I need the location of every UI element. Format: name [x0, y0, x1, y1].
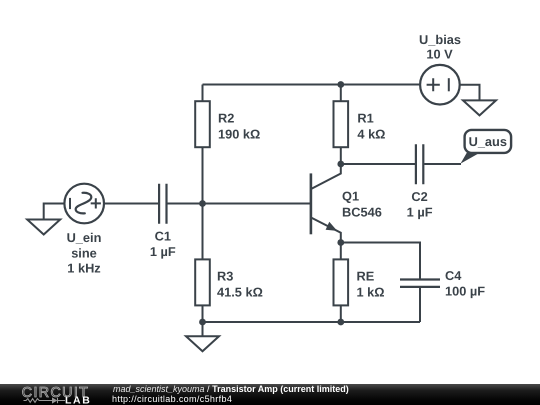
U_bias plus sign: [427, 78, 440, 91]
resistor R3: [195, 259, 210, 305]
wire RE bottom stem: [340, 305, 342, 322]
node junction R3 bottom: [199, 319, 206, 326]
ground at U_bias: [463, 100, 496, 115]
label RE value: [357, 268, 385, 299]
node junction collector: [337, 161, 344, 168]
label R3 value: [217, 268, 263, 299]
transistor Q1 collector lead: [311, 164, 341, 189]
wire RE top stem: [340, 243, 342, 260]
svg-text:R3: R3: [217, 268, 233, 283]
resistor RE: [334, 259, 349, 305]
svg-text:U_bias: U_bias: [419, 32, 461, 47]
capacitor C2: [416, 144, 423, 184]
svg-text:1 µF: 1 µF: [407, 205, 433, 220]
U_bias minus bar: [448, 78, 450, 91]
wire top rail from R2 to U_bias: [203, 84, 421, 86]
ground bottom: [186, 336, 219, 351]
U_ein minus bar: [69, 198, 71, 209]
wire R2 top stem: [202, 85, 204, 102]
label Q1 BC546: [342, 189, 382, 220]
wire C1 to base node: [167, 203, 310, 205]
svg-text:RE: RE: [357, 268, 375, 283]
wire R3 bottom stem: [202, 305, 204, 322]
label R1 value: [357, 110, 385, 141]
footer url line: [112, 394, 232, 404]
wire C4 bottom to bottom rail: [419, 287, 421, 322]
transistor Q1 base bar: [310, 173, 313, 234]
svg-text:Q1: Q1: [342, 189, 359, 204]
wire R3 node to ground: [202, 322, 204, 336]
wire R1 top stem: [340, 85, 342, 102]
wire bottom rail: [203, 321, 421, 323]
label C4 value: [445, 268, 485, 299]
wire U_ein left to ground: [44, 204, 65, 220]
svg-text:1 kHz: 1 kHz: [67, 261, 100, 276]
transistor Q1 emitter lead: [311, 218, 341, 243]
capacitor C1: [159, 184, 166, 224]
footer credit line: [113, 384, 349, 394]
node junction R1-toprail: [337, 81, 344, 88]
svg-text:U_ein: U_ein: [67, 230, 102, 245]
wire emitter node to C4 top: [341, 243, 420, 280]
transistor Q1 emitter arrow: [326, 222, 338, 231]
wire R2 bottom stem: [202, 147, 204, 203]
label U_bias: [419, 32, 461, 62]
svg-text:LAB: LAB: [65, 395, 91, 405]
svg-text:4 kΩ: 4 kΩ: [357, 126, 385, 141]
node junction emitter: [337, 239, 344, 246]
wire R3 top stem: [202, 204, 204, 260]
label C1 value: [150, 229, 176, 260]
ground at U_ein: [27, 220, 60, 235]
svg-text:R1: R1: [357, 110, 373, 125]
resistor R2: [195, 101, 210, 147]
svg-text:C4: C4: [445, 268, 462, 283]
svg-text:U_aus: U_aus: [469, 134, 507, 149]
wire U_ein to C1: [104, 203, 158, 205]
node junction RE bottom: [337, 319, 344, 326]
label C2 value: [407, 189, 433, 220]
svg-text:C1: C1: [155, 229, 171, 244]
svg-text:190 kΩ: 190 kΩ: [218, 126, 260, 141]
CircuitLab logo: [15, 384, 115, 405]
svg-text:R2: R2: [218, 110, 234, 125]
node flag U_aus: [461, 130, 512, 164]
label R2 value: [218, 110, 260, 141]
wire R1 bottom stem: [340, 147, 342, 164]
U_ein sine symbol: [76, 193, 92, 214]
svg-text:C2: C2: [411, 189, 427, 204]
svg-text:100 µF: 100 µF: [445, 283, 485, 298]
svg-text:BC546: BC546: [342, 205, 382, 220]
node junction base: [199, 200, 206, 207]
resistor R1: [334, 101, 349, 147]
svg-text:sine: sine: [71, 245, 97, 260]
svg-text:1 kΩ: 1 kΩ: [357, 284, 385, 299]
svg-text:1 µF: 1 µF: [150, 244, 176, 259]
svg-text:41.5 kΩ: 41.5 kΩ: [217, 284, 263, 299]
wire U_bias to ground: [460, 85, 480, 101]
voltage source U_ein: [64, 184, 104, 224]
wire C2 to U_aus: [424, 163, 461, 165]
svg-text:10 V: 10 V: [426, 47, 453, 62]
label U_ein sine 1 kHz: [67, 230, 102, 275]
capacitor C4: [400, 280, 440, 287]
wire collector to C2: [341, 163, 415, 165]
footer bar: [0, 384, 540, 405]
U_ein plus sign: [91, 198, 101, 208]
voltage source U_bias: [420, 65, 460, 105]
